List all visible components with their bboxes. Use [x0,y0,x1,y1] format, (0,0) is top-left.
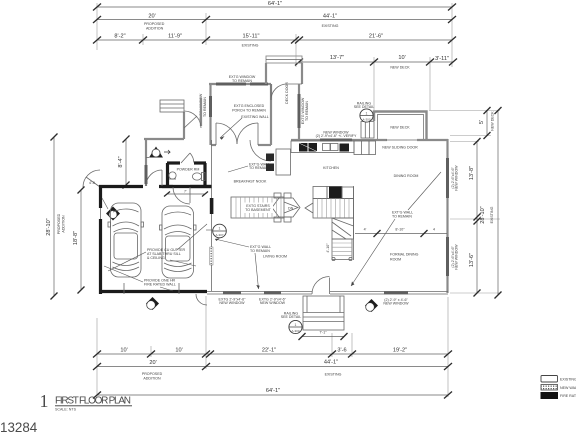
svg-text:5': 5' [479,120,485,124]
svg-text:3'-11": 3'-11" [435,56,449,62]
stoop at porch top right [266,56,302,84]
svg-text:LIVING ROOM: LIVING ROOM [263,255,287,259]
kitchen counter [291,141,354,153]
svg-text:PROPOSED: PROPOSED [57,213,61,234]
right dimension 28'-10" existing [480,107,502,299]
bottom dimension row 20' / 44'-1" [93,360,452,381]
svg-text:10': 10' [398,55,405,61]
left dimension 18'-8" [73,187,85,294]
svg-text:18'-8": 18'-8" [73,231,79,245]
svg-text:EXISTING: EXISTING [322,24,339,28]
svg-text:& CEILING: & CEILING [147,256,165,260]
svg-text:3'-6: 3'-6 [337,348,346,354]
left dimension 28'-10" proposed addition [46,134,66,300]
new deck outline [374,112,427,140]
section marker below garage [146,297,159,310]
svg-text:EXISTING: EXISTING [325,373,342,377]
svg-text:NEW WINDOW: NEW WINDOW [383,302,409,306]
side entry walls and door [160,98,201,139]
powder room door [181,153,194,163]
svg-text:4'-10": 4'-10" [326,243,330,253]
house right wall with windows [448,139,459,293]
mudroom section marker triangle [146,147,170,158]
svg-text:SEE DETAIL: SEE DETAIL [354,105,375,109]
svg-text:DN: DN [288,207,294,211]
door garage to mudroom [146,170,162,186]
formal dining room label [390,253,419,262]
french doors porch to breakfast nook [211,123,271,145]
svg-text:A-300: A-300 [291,329,299,333]
svg-text:A-307: A-307 [215,233,223,237]
svg-text:FIRE RATED WALL: FIRE RATED WALL [144,283,176,287]
right dimension 5' new deck [429,107,500,139]
svg-text:FORMAL DINING: FORMAL DINING [390,253,419,257]
svg-text:TO BASEMENT: TO BASEMENT [245,208,271,212]
pantry [369,141,376,155]
garage door centerline marks [124,283,179,294]
garage top wall [99,185,212,188]
bottom dimension row 10'/10'/22'-1"/3'-6/19'-2" [93,348,452,358]
svg-text:ADDITION: ADDITION [62,215,66,233]
enclosed porch right wall [270,84,272,145]
deck steps [361,122,374,139]
svg-text:7': 7' [184,190,187,194]
living room left wall [210,140,214,291]
bottom extension lines [97,296,448,397]
powder room walls [159,163,211,187]
garage gutter note [108,224,207,271]
deck railing detail circle [354,102,375,123]
door walkway to breakfast nook [250,140,271,161]
svg-text:ADDITION: ADDITION [146,27,164,31]
svg-text:POWDER RM: POWDER RM [177,168,200,172]
svg-text:DINING ROOM: DINING ROOM [394,174,419,178]
main staircase [305,186,354,261]
svg-text:8'-4": 8'-4" [118,156,124,167]
svg-text:FIRE RATED WALL: FIRE RATED WALL [560,394,576,398]
powder room toilet [192,173,205,181]
porch labels [232,104,269,119]
legend fire rated wall [541,393,576,399]
svg-text:11'-9": 11'-9" [168,34,182,40]
svg-text:15'-11": 15'-11" [243,34,260,40]
bottom window labels [219,298,410,306]
svg-text:NEW WINDOW: NEW WINDOW [260,301,286,305]
left dimension 8'-4" [118,136,130,189]
svg-text:KITCHEN: KITCHEN [323,166,339,170]
house bottom wall with windows [207,292,448,295]
svg-text:10': 10' [120,348,127,354]
svg-text:EXISTING WALL: EXISTING WALL [241,115,268,119]
porch railing detail circle [281,312,302,334]
section marker right of porch [365,299,378,312]
svg-text:4'-0: 4'-0 [89,181,95,185]
porch left window label rotated [199,93,207,120]
interior dim 4' / 8'-10" [355,228,447,238]
bottom dimension row 64'-1" [93,388,452,399]
svg-text:4': 4' [364,228,367,232]
svg-text:SCALE: NTS: SCALE: NTS [55,408,77,412]
svg-text:44'-1": 44'-1" [323,14,337,20]
dimension row 13'-7" / 10' new deck / 3'-11" [295,55,457,70]
svg-text:SEE DETAIL: SEE DETAIL [281,315,302,319]
deck door from stoop with swing [271,82,302,104]
car 2 [160,206,197,278]
svg-text:NEW WINDOW: NEW WINDOW [455,244,459,270]
svg-text:1: 1 [295,323,297,327]
svg-text:22'-1": 22'-1" [262,348,276,354]
dimension row 8'-2" / 11'-9" / 15'-11" / 21'-6" [93,34,456,48]
svg-text:28'-10": 28'-10" [46,218,52,235]
front door with swing [312,277,330,295]
living room wall note with leaders [215,238,271,289]
svg-text:13284: 13284 [0,420,38,432]
svg-text:1: 1 [219,227,221,231]
leader porch existing wall [220,118,242,138]
svg-text:NEW DECK: NEW DECK [491,111,495,131]
porch window label [229,75,256,83]
dimension row 64'-1" overall top [93,1,456,11]
svg-text:BREAKFAST NOOK: BREAKFAST NOOK [234,180,267,184]
garage fire wall note [104,266,176,291]
living room exterior stoop [196,294,207,305]
right dimension 13'-8" / 13'-6" [450,138,500,297]
svg-text:8'-2": 8'-2" [114,34,125,40]
legend new walls [541,385,576,391]
svg-text:EXISTING: EXISTING [242,44,259,48]
svg-text:13'-6": 13'-6" [469,253,475,267]
svg-text:TO REMAIN: TO REMAIN [250,249,270,253]
svg-text:NEW WALLS: NEW WALLS [560,386,576,390]
top dimension extension lines [97,3,452,110]
svg-text:64'-1": 64'-1" [266,388,280,394]
mud room top wall [144,138,184,140]
enclosed porch left wall with window [209,84,211,145]
svg-text:1: 1 [366,111,368,115]
legend existing walls [541,376,576,383]
living room wall detail circle 1/A-307 [206,224,226,238]
garage bottom wall [99,290,207,293]
svg-text:8'-10": 8'-10" [395,228,405,232]
breakfast nook wall note [228,163,270,173]
svg-text:28'-10": 28'-10" [480,206,486,223]
dining wall note with leaders [351,172,441,286]
svg-text:EXTG ENCLOSED: EXTG ENCLOSED [234,104,265,108]
walkway right wall with window [299,84,309,139]
svg-text:DECK DOOR: DECK DOOR [285,82,289,104]
svg-text:NEW DECK: NEW DECK [390,66,410,70]
svg-text:ROOM: ROOM [390,258,401,262]
kitchen bar counter with stools [266,149,291,175]
svg-text:7'-1": 7'-1" [319,331,327,335]
svg-text:TO REMAIN: TO REMAIN [305,101,309,121]
svg-text:64'-1": 64'-1" [268,1,282,7]
svg-text:EXISTING: EXISTING [490,206,494,223]
svg-text:PROPOSED: PROPOSED [142,372,163,376]
svg-text:20': 20' [149,360,156,366]
svg-text:A-300: A-300 [362,118,370,122]
powder room 7' dim [164,190,208,197]
breakfast table with chairs [272,193,300,222]
svg-text:TO REMAIN: TO REMAIN [392,215,412,219]
svg-text:20': 20' [148,14,155,20]
svg-text:TO REMAIN: TO REMAIN [232,79,252,83]
svg-text:(2) 2'-9"x4'-6" +/- VERIFY: (2) 2'-9"x4'-6" +/- VERIFY [316,134,357,138]
svg-text:ADDITION: ADDITION [143,377,161,381]
car 1 [108,203,144,277]
refrigerator [354,141,369,155]
svg-text:NEW WINDOW: NEW WINDOW [455,165,459,191]
svg-text:19'-2": 19'-2" [393,348,407,354]
svg-text:10': 10' [175,348,182,354]
svg-text:FIRST FLOOR PLAN: FIRST FLOOR PLAN [55,396,131,407]
svg-text:TO REMAIN: TO REMAIN [203,97,207,117]
garage left wall [99,185,102,294]
mud room left wall with window [145,139,147,186]
powder room sink [169,172,176,179]
porch 7'-1" dim [299,331,348,341]
basement stairs [231,197,298,218]
front porch stoop with steps [303,296,344,330]
svg-text:NEW WINDOW: NEW WINDOW [219,301,245,305]
svg-text:EXISTING WALLS: EXISTING WALLS [560,378,576,382]
kitchen window label [316,131,357,139]
svg-text:4: 4 [433,228,435,232]
dimension row 20' / 44'-1" [93,14,456,31]
svg-text:44'-1": 44'-1" [324,360,338,366]
garage outside door at left [83,170,100,187]
svg-text:1: 1 [40,391,49,411]
enclosed porch top wall with windows [209,83,271,85]
svg-text:NEW SLIDING DOOR: NEW SLIDING DOOR [382,146,418,150]
garage section marker diamond [102,198,120,221]
svg-text:PORCH TO REMAIN: PORCH TO REMAIN [232,109,266,113]
svg-text:21'-6": 21'-6" [369,34,383,40]
kitchen top wall with window and sliding door [291,139,448,141]
svg-text:PROPOSED: PROPOSED [144,22,165,26]
svg-text:13'-8": 13'-8" [469,166,475,180]
svg-text:NEW DECK: NEW DECK [390,126,410,130]
svg-text:13'-7": 13'-7" [330,55,344,61]
door garage to hall [173,187,190,204]
